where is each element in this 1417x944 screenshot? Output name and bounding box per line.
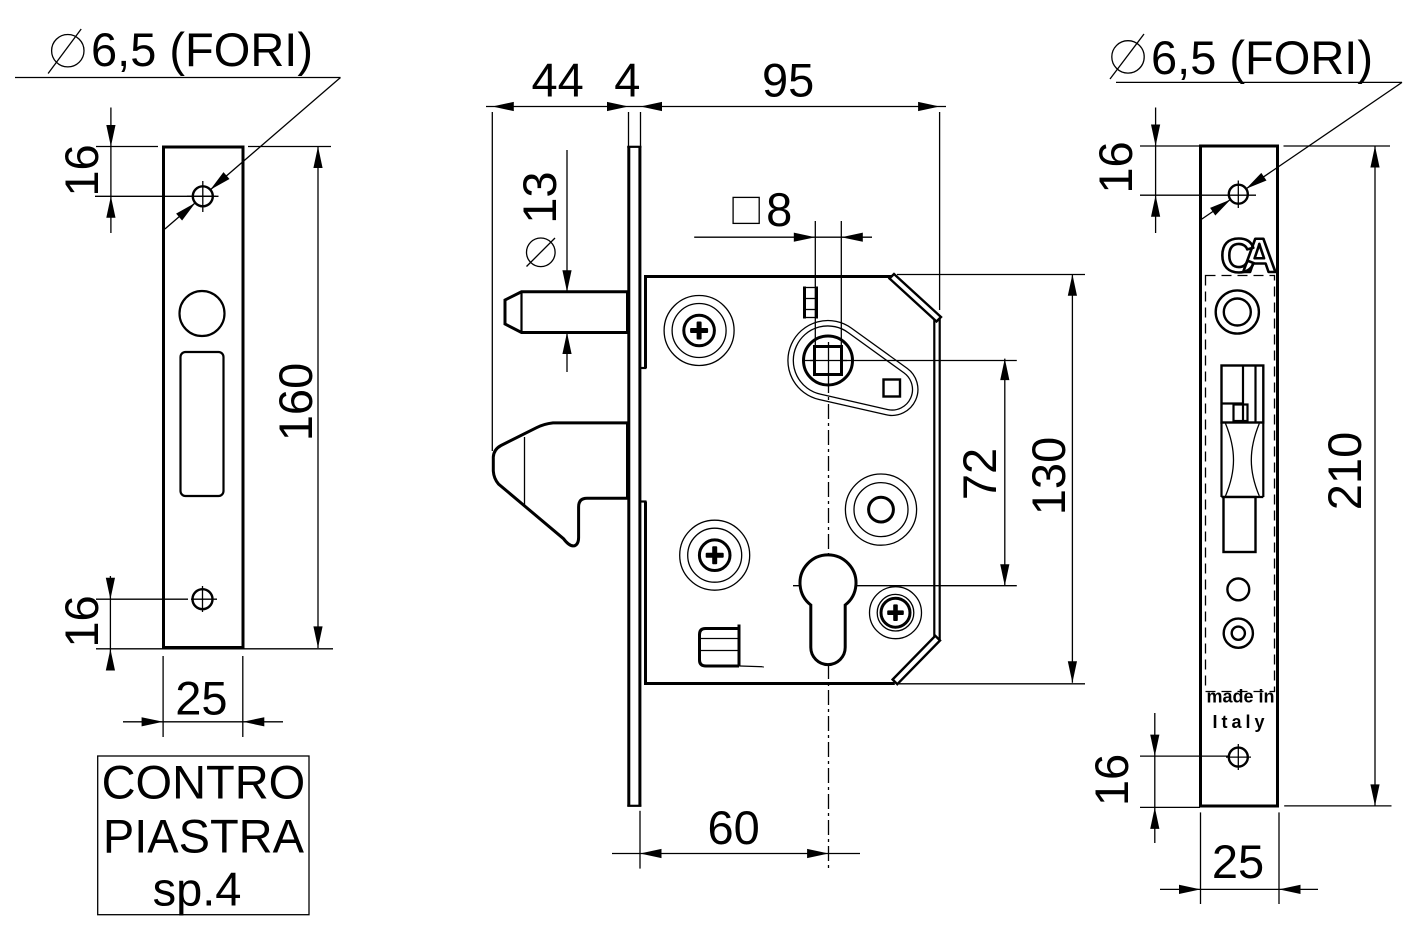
svg-text:CONTRO: CONTRO xyxy=(102,755,306,808)
svg-text:25: 25 xyxy=(175,672,227,725)
svg-text:PIASTRA: PIASTRA xyxy=(103,810,305,863)
dimension 16 bottom-right: dimension line xyxy=(1154,713,1156,843)
lock body bottom edge xyxy=(644,682,895,685)
faceplate bottom hole xyxy=(1226,744,1251,770)
hook bolt bend line xyxy=(524,437,526,505)
dimension 130: arrows xyxy=(1068,274,1077,296)
screw bottom-left xyxy=(680,520,750,590)
dimension 25 (right view): arrows xyxy=(1179,885,1201,894)
svg-text:16: 16 xyxy=(1085,754,1138,806)
dimension 25 (left view): arrows xyxy=(142,717,164,726)
dimension 8: extension lines xyxy=(814,221,816,347)
screw top-left xyxy=(664,296,734,366)
fixing pin facet edge xyxy=(520,292,522,333)
dimension diameter 13: label xyxy=(513,171,566,266)
lock body top-right bent tab xyxy=(890,274,942,322)
counter plate large hole xyxy=(180,291,225,336)
faceplate (middle view, edge-on) left line xyxy=(627,146,630,806)
svg-text:210: 210 xyxy=(1318,432,1371,510)
extension line 130 bottom xyxy=(897,683,1085,685)
title box CONTRO PIASTRA sp.4 xyxy=(98,755,309,915)
euro cylinder hole xyxy=(800,555,856,665)
lock body left edge lower segment xyxy=(644,502,647,684)
faceplate front view outline xyxy=(1201,146,1278,806)
dimension 25 (left view): dimension line xyxy=(123,721,283,723)
svg-text:60: 60 xyxy=(707,801,759,854)
fixing pin (left protrusion) xyxy=(505,292,628,333)
svg-text:6,5 (FORI): 6,5 (FORI) xyxy=(1151,31,1373,84)
hook bolt front view: bottom box xyxy=(1224,497,1256,552)
ring hole right-middle xyxy=(845,474,916,545)
leader arrow lower (left view) xyxy=(176,203,195,221)
cam teardrop inner contour xyxy=(793,326,912,410)
svg-text:160: 160 xyxy=(269,363,322,441)
dimension 210: extension lines xyxy=(1284,145,1391,147)
dimension 25 (right view): extension lines xyxy=(1200,812,1202,904)
dimension 60: extension line (faceplate) xyxy=(639,811,641,869)
dimension square 8: label xyxy=(733,183,792,236)
svg-text:44: 44 xyxy=(531,54,583,107)
dimension 16 top-left: extension lines xyxy=(96,146,158,148)
hidden lock case (dashed) xyxy=(1206,276,1275,692)
svg-text:Italy: Italy xyxy=(1212,712,1268,732)
hook bolt front view: waist section xyxy=(1222,423,1264,498)
vertical centreline (dash-dot) through spindle and cylinder xyxy=(828,378,830,869)
leader underline (right view) xyxy=(1116,81,1402,83)
dimension 72: arrows xyxy=(1000,359,1009,381)
extension line 130 top xyxy=(897,274,1085,276)
svg-text:4: 4 xyxy=(614,54,640,107)
label diameter 6,5 FORI (left view) xyxy=(48,23,313,76)
dimension 16 top-right: dimension line xyxy=(1155,108,1157,234)
svg-text:16: 16 xyxy=(55,595,108,647)
counter plate slot xyxy=(181,352,224,496)
svg-text:25: 25 xyxy=(1212,835,1264,888)
faceplate right line xyxy=(638,146,641,806)
screw bottom-right xyxy=(870,587,922,639)
dimension 25 (left view): extension lines xyxy=(162,656,164,737)
dimension 44/4/95: dimension line xyxy=(486,106,946,108)
counter plate bottom hole xyxy=(191,586,217,612)
dimension 160: dimension line xyxy=(317,147,319,649)
dimension 60: dimension line xyxy=(612,853,860,855)
dimension 95: extension line right xyxy=(939,112,941,310)
dimension 25 (right view): dimension line xyxy=(1160,888,1318,890)
dimension 130: dimension line xyxy=(1071,274,1073,683)
leader line to top hole (right view) xyxy=(1201,82,1402,219)
svg-text:16: 16 xyxy=(55,144,108,196)
dimension 13: dimension line segments xyxy=(566,150,568,291)
lock body top edge xyxy=(644,275,893,278)
dimension 4: extension lines (faceplate) xyxy=(628,112,630,146)
faceplate bottom cap xyxy=(627,805,641,807)
dimension 60: arrows xyxy=(640,849,662,858)
spindle follower hub xyxy=(804,336,853,385)
dimension 160: arrows xyxy=(313,147,322,169)
dimension 8: dimension line xyxy=(694,236,872,238)
svg-text:130: 130 xyxy=(1022,437,1075,515)
svg-text:made in: made in xyxy=(1206,687,1274,707)
lock body bottom-right bent tab xyxy=(893,636,940,684)
dimension 210: dimension line xyxy=(1374,146,1376,806)
dimension 16 top-left: dimension line xyxy=(110,108,112,234)
cam teardrop outer contour xyxy=(788,320,918,415)
dimension 16 top-right: arrows xyxy=(1151,125,1160,147)
hook bolt outline xyxy=(493,423,627,546)
svg-text:72: 72 xyxy=(953,448,1006,500)
svg-text:sp.4: sp.4 xyxy=(153,863,242,916)
faceplate double ring xyxy=(1224,619,1253,648)
svg-text:95: 95 xyxy=(762,54,814,107)
counter plate outline (left view) xyxy=(164,147,244,648)
extension line 72 bottom (cylinder centre) xyxy=(793,585,1017,587)
leader arrow upper (right view) xyxy=(1246,173,1266,189)
leader underline (left view) xyxy=(15,77,341,79)
hook bolt front view: outer top box xyxy=(1222,366,1264,423)
made in Italy text xyxy=(1206,687,1274,733)
leader arrow lower (right view) xyxy=(1210,200,1230,216)
dimension 16 bottom-left: dimension line xyxy=(109,576,111,667)
dimension 16 bottom-left: arrows xyxy=(106,578,115,600)
svg-text:13: 13 xyxy=(513,171,566,223)
spring clip bottom-left xyxy=(700,625,765,667)
faceplate small circle xyxy=(1227,579,1249,601)
lock body left edge upper segment xyxy=(644,275,647,368)
lock body slot step lower xyxy=(641,500,647,502)
dimension 16 bottom-right: arrows xyxy=(1150,735,1159,757)
dimension 8: arrows xyxy=(794,233,816,242)
dimension 44: extension line left (hook tip) xyxy=(491,112,493,451)
dimension 44 arrows xyxy=(492,102,514,111)
extension line 72 top (spindle centre) xyxy=(802,360,1017,362)
faceplate top cap xyxy=(627,146,641,148)
dimension 16 bottom-right: extension lines xyxy=(1140,755,1229,757)
svg-text:16: 16 xyxy=(1089,141,1142,193)
faceplate top hole xyxy=(1229,181,1248,209)
dimension 16 top-left: arrows xyxy=(106,125,115,147)
lock body right edge (double line) xyxy=(933,319,935,638)
svg-text:8: 8 xyxy=(766,183,792,236)
spindle crosshair xyxy=(810,360,847,362)
svg-text:6,5 (FORI): 6,5 (FORI) xyxy=(91,23,313,76)
leader arrow upper (left view) xyxy=(210,172,229,190)
dimension 16 top-right: extension lines xyxy=(1140,145,1200,147)
dimension 13: arrows xyxy=(562,270,571,292)
faceplate ring hole xyxy=(1216,290,1259,333)
dimension 95 arrows xyxy=(641,102,663,111)
dimension 72: dimension line xyxy=(1004,359,1006,586)
dimension 160: extension lines xyxy=(248,146,331,148)
lock body slot step upper xyxy=(641,367,647,369)
spindle square hole 8mm xyxy=(815,347,842,375)
dimension 210: arrows xyxy=(1370,146,1379,168)
stop pin stack (above cam) xyxy=(803,287,818,319)
cam small square hole xyxy=(884,380,901,397)
counter plate top hole xyxy=(187,181,219,212)
label diameter 6,5 FORI (right view) xyxy=(1110,31,1373,84)
leader line to top hole (left view) xyxy=(165,78,341,230)
dimension 16 bottom-left: extension line xyxy=(96,598,188,600)
